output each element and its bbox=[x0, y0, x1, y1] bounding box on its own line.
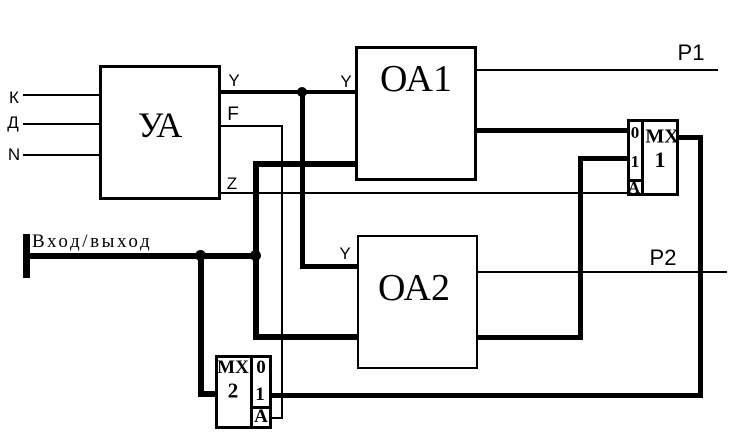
terminal input-output bar bbox=[23, 234, 30, 278]
wire P2 output bbox=[477, 271, 727, 273]
MX1 A cell divider bbox=[628, 179, 643, 182]
label UA bbox=[138, 104, 183, 146]
MX2 column divider bbox=[250, 358, 253, 426]
wire MX1 output bbox=[679, 135, 703, 140]
label Z bbox=[227, 174, 237, 194]
wire Y bus vertical down bbox=[300, 90, 305, 268]
label MX1 pin 0 bbox=[631, 123, 640, 143]
wire MX1 output vertical down bbox=[698, 135, 703, 398]
wire F into MX2 A bbox=[271, 417, 283, 419]
label N bbox=[8, 145, 20, 165]
wire Z from UA to MX1 A bbox=[220, 192, 629, 194]
wire P1 output bbox=[476, 69, 718, 71]
label P2 bbox=[650, 245, 677, 271]
wire F vertical bbox=[281, 125, 283, 419]
wire F from UA bbox=[220, 125, 283, 127]
wire bus down to MX2 bbox=[198, 254, 204, 397]
label MX1 name bbox=[645, 126, 678, 149]
block OA1 bbox=[355, 46, 477, 181]
wire Y bus UA to OA1 bbox=[220, 90, 357, 94]
label MX2 pin 1 bbox=[255, 384, 265, 406]
wire bus feed to OA1 bbox=[253, 161, 357, 167]
label OA1 bbox=[380, 57, 452, 101]
label K bbox=[9, 88, 19, 108]
label MX2 pin A bbox=[254, 406, 268, 428]
label MX2 name bbox=[217, 357, 249, 379]
label D bbox=[7, 113, 19, 133]
wire OA2 output horizontal bbox=[477, 335, 583, 340]
wire bus stub into MX2 bbox=[198, 391, 218, 397]
block UA control unit bbox=[99, 65, 221, 200]
wire OA1 output to MX1 input 0 bbox=[476, 128, 628, 133]
block MX2 multiplexer bbox=[215, 355, 272, 429]
block OA2 bbox=[357, 235, 478, 369]
wire N input bbox=[23, 154, 100, 156]
label Vhod/vyhod bbox=[32, 231, 152, 253]
wire OA2 output vertical up bbox=[578, 156, 583, 340]
wire main bus horizontal bbox=[26, 253, 258, 259]
wire MX1 output to MX2 input 1 bbox=[272, 393, 703, 398]
label P1 bbox=[678, 40, 705, 66]
label MX2 number 2 bbox=[228, 379, 239, 404]
label Y at UA output bbox=[228, 71, 239, 91]
label MX1 number 1 bbox=[655, 147, 666, 173]
node junction on Y bus bbox=[297, 87, 307, 97]
label MX1 pin A bbox=[628, 178, 640, 198]
wire bus feed to OA2 bbox=[253, 334, 359, 340]
label Y at OA1 input bbox=[340, 72, 351, 92]
node junction bus 1 bbox=[195, 250, 206, 261]
wire D input bbox=[23, 123, 100, 125]
wire bus vertical at 255 bbox=[253, 161, 259, 338]
label OA2 bbox=[378, 266, 450, 310]
MX1 column divider bbox=[641, 122, 644, 193]
label MX2 pin 0 bbox=[256, 357, 266, 379]
wire Y bus to OA2 bbox=[300, 264, 359, 269]
label Y at OA2 input bbox=[339, 244, 350, 264]
MX2 A cell divider bbox=[251, 406, 269, 409]
wire K input bbox=[23, 94, 100, 96]
wire into MX1 input 1 bbox=[578, 156, 628, 161]
node junction bus 2 bbox=[250, 250, 261, 261]
label F bbox=[227, 104, 239, 126]
label MX1 pin 1 bbox=[631, 152, 640, 172]
block MX1 multiplexer bbox=[627, 119, 679, 196]
